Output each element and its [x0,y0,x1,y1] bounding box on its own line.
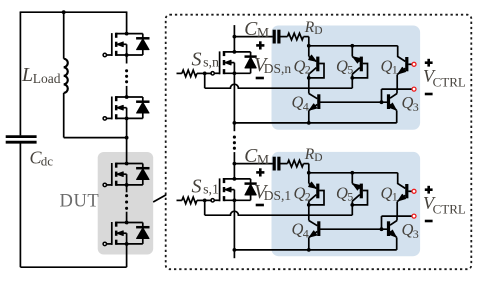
svg-text:4: 4 [303,227,309,241]
svg-text:M: M [257,25,269,40]
svg-text:M: M [257,152,269,167]
svg-text:2: 2 [305,63,311,77]
svg-text:L: L [21,64,33,86]
svg-text:Q: Q [294,57,306,76]
svg-text:Q: Q [292,219,304,238]
svg-text:Q: Q [292,92,304,111]
svg-text:5: 5 [347,190,353,204]
svg-text:1: 1 [392,63,398,77]
svg-text:Q: Q [381,57,393,76]
svg-text:s,1: s,1 [203,183,219,198]
svg-text:5: 5 [347,63,353,77]
svg-text:Q: Q [336,184,348,203]
svg-text:Q: Q [336,57,348,76]
svg-text:1: 1 [392,190,398,204]
svg-text:DUT: DUT [60,192,100,212]
svg-text:R: R [304,19,315,36]
svg-text:D: D [314,25,322,37]
svg-text:3: 3 [413,227,419,241]
svg-text:dc: dc [41,154,54,169]
svg-text:D: D [314,152,322,164]
svg-text:Q: Q [402,220,414,239]
svg-text:Load: Load [33,71,61,86]
svg-text:CTRL: CTRL [433,75,466,90]
svg-text:CTRL: CTRL [433,202,466,217]
svg-text:DS,n: DS,n [264,61,292,76]
svg-text:R: R [304,146,315,163]
svg-text:4: 4 [303,100,309,114]
svg-text:2: 2 [305,190,311,204]
svg-text:S: S [192,49,202,71]
svg-text:Q: Q [381,184,393,203]
svg-text:Q: Q [402,93,414,112]
svg-text:Q: Q [294,184,306,203]
svg-text:s,n: s,n [203,56,219,71]
svg-text:S: S [192,176,202,198]
svg-text:3: 3 [413,100,419,114]
svg-text:DS,1: DS,1 [264,188,291,203]
